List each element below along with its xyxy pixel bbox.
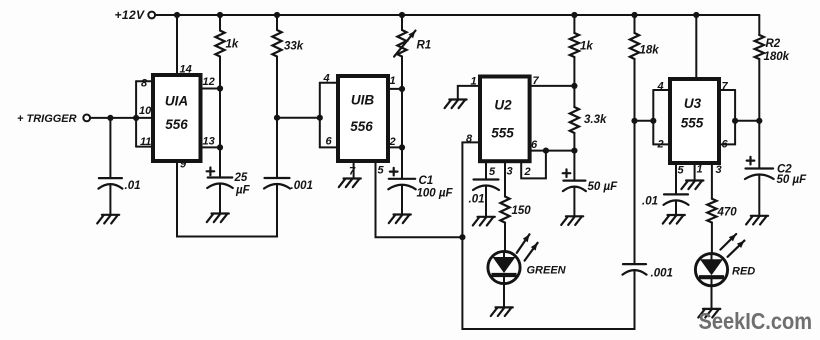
wire U3 left bracket to 18k <box>635 120 654 122</box>
node rail-R1 <box>399 12 405 18</box>
svg-text:.001: .001 <box>291 180 313 192</box>
wire U3 pins 7-6 bracket <box>734 90 736 144</box>
svg-text:7: 7 <box>349 166 356 178</box>
svg-text:UIA: UIA <box>165 94 188 109</box>
svg-text:7: 7 <box>533 75 540 87</box>
capacitor C1 100 uF <box>388 168 453 214</box>
node rail-U3 <box>693 12 699 18</box>
wire U1A pin 9 to .001 <box>177 159 277 237</box>
svg-text:13: 13 <box>203 136 215 148</box>
svg-text:50 µF: 50 µF <box>777 174 808 186</box>
node trigger-C.01 <box>107 115 113 121</box>
ground under GREEN LED <box>491 307 513 316</box>
resistor 18k <box>630 15 659 59</box>
svg-text:7: 7 <box>722 81 729 93</box>
timer U2 555 <box>480 77 530 162</box>
watermark SeekIC.com <box>699 308 813 334</box>
ground UIB pin 7 <box>339 179 361 188</box>
svg-text:11: 11 <box>140 136 151 148</box>
resistor 1k (U2) <box>570 15 594 86</box>
svg-text:555: 555 <box>491 126 514 141</box>
svg-text:1k: 1k <box>226 39 239 51</box>
node rail-1k <box>217 12 223 18</box>
resistor R2 180k <box>755 15 790 121</box>
ground U2 pin 1 <box>445 100 467 109</box>
wire UIB pin 1 stub <box>388 75 402 89</box>
wire U2 pin 2 loop <box>521 151 546 179</box>
wire UIB pin 5 to node <box>376 161 463 237</box>
svg-text:GREEN: GREEN <box>527 265 567 277</box>
capacitor C2 50 uF <box>745 121 807 215</box>
node 33k junction <box>274 115 280 121</box>
svg-text:RED: RED <box>732 266 755 278</box>
ground under 50uF <box>561 216 583 225</box>
node pin6-pin2 tie <box>543 148 549 154</box>
wire U1A pins 8-10-11 bracket <box>136 81 152 146</box>
node UIB pin1 <box>399 86 405 92</box>
svg-text:9: 9 <box>180 159 187 171</box>
op timer U1A 556 <box>153 75 201 161</box>
wire UIB pins 4-6 bracket <box>319 83 321 148</box>
wire U3 pin 2 stub <box>653 139 670 151</box>
svg-text:10: 10 <box>139 105 152 117</box>
svg-text:5: 5 <box>378 165 385 177</box>
svg-text:50 µF: 50 µF <box>588 181 619 193</box>
svg-text:18k: 18k <box>640 45 660 57</box>
node pin5/pin8 junction <box>459 234 465 240</box>
svg-text:3: 3 <box>507 166 513 178</box>
svg-text:180k: 180k <box>764 51 790 63</box>
wire U3 pin 1 to ground <box>695 163 703 180</box>
svg-text:R2: R2 <box>766 38 781 50</box>
node rail-1k-b <box>571 12 577 18</box>
svg-text:SeekIC.com: SeekIC.com <box>699 308 813 334</box>
wire U1A pin 11 stub <box>136 136 153 148</box>
variable resistor R1 <box>394 15 431 57</box>
svg-text:2: 2 <box>657 139 664 151</box>
node UIB pin2 <box>399 144 405 150</box>
svg-text:.001: .001 <box>651 268 673 280</box>
resistor 33k <box>272 15 303 57</box>
wire 18k to .001 <box>634 59 636 264</box>
wire U2 pin 6 stub <box>530 139 575 151</box>
svg-text:C1: C1 <box>419 175 434 187</box>
node rail-U1A <box>174 12 180 18</box>
svg-text:2: 2 <box>524 166 531 178</box>
wire right bracket to R2 <box>735 120 759 122</box>
wire UIB pin 2 stub <box>388 136 402 148</box>
ground U3 pin 1 <box>681 181 703 190</box>
wire U3 pins 4-2 bracket <box>652 90 654 144</box>
node 3.3k bottom <box>571 148 577 154</box>
node U3 left bracket <box>650 118 656 124</box>
svg-text:4: 4 <box>323 73 330 85</box>
wire trigger to U1A pin 10 <box>90 117 153 119</box>
svg-text:5: 5 <box>489 166 496 178</box>
svg-text:R1: R1 <box>417 40 432 52</box>
ground under .01 trigger cap <box>97 215 119 224</box>
svg-text:556: 556 <box>350 119 373 134</box>
svg-text:33k: 33k <box>284 41 304 53</box>
node 18k junction <box>631 118 637 124</box>
svg-text:5: 5 <box>678 165 685 177</box>
capacitor 25 uF <box>207 168 251 213</box>
ground under RED LED <box>698 309 720 318</box>
wire U1A pin 8 stub <box>136 78 153 90</box>
svg-text:1: 1 <box>390 75 396 87</box>
node U3 right bracket <box>732 118 738 124</box>
arrows RED LED <box>720 234 744 257</box>
ground under C1 <box>389 215 411 224</box>
node rail-18k <box>631 12 637 18</box>
svg-text:1k: 1k <box>580 41 593 53</box>
svg-text:+12V: +12V <box>115 8 146 22</box>
resistor 470 <box>707 163 737 254</box>
svg-text:U3: U3 <box>684 96 702 111</box>
wire R1 to pins 1-2 <box>401 57 403 179</box>
node rail-33k <box>274 12 280 18</box>
svg-text:4: 4 <box>657 81 664 93</box>
svg-text:.01: .01 <box>125 180 141 192</box>
svg-text:3: 3 <box>716 164 722 176</box>
svg-text:2: 2 <box>389 136 396 148</box>
capacitor .001 (U1A feedback) <box>264 178 313 192</box>
node U2 pin7 <box>571 83 577 89</box>
wire U3 pin 7 stub <box>719 81 735 93</box>
svg-text:.01: .01 <box>469 194 485 206</box>
svg-text:12: 12 <box>203 76 215 88</box>
LED RED <box>695 254 755 286</box>
ground under C2 <box>746 216 768 225</box>
resistor 1k (U1A) <box>215 15 238 57</box>
wire U3 pin 4 stub <box>653 81 670 93</box>
node pin13 <box>217 144 223 150</box>
svg-text:556: 556 <box>165 117 188 132</box>
wire +12V rail <box>155 14 759 16</box>
wire 33k to UIB bracket <box>277 117 320 119</box>
resistor 150 <box>500 161 531 251</box>
capacitor .01 (U2 pin5) <box>469 161 500 216</box>
ground under 25uF <box>207 214 229 223</box>
wire UIB pin 6 stub <box>320 136 338 148</box>
ground under U2 .01 <box>473 217 495 226</box>
wire RED LED to ground <box>711 286 713 308</box>
svg-text:6: 6 <box>722 139 729 151</box>
wire U2 pin 8 to junction <box>462 133 480 237</box>
wire U1A pin 14 Vcc <box>177 15 192 76</box>
capacitor .01 at trigger <box>98 118 140 214</box>
wire U1A pin 13 stub <box>201 136 221 148</box>
svg-text:6: 6 <box>531 139 538 151</box>
capacitor .01 (U3 pin5) <box>642 163 689 214</box>
wire UIB pin 4 stub <box>320 73 338 85</box>
node UIB bracket junction <box>317 115 323 121</box>
svg-text:8: 8 <box>141 78 148 90</box>
svg-text:100 µF: 100 µF <box>417 188 454 200</box>
wire U1A pin 12 stub <box>201 76 221 89</box>
timer U3 555 <box>670 79 719 163</box>
wire UIB pin 7 stub <box>349 161 356 178</box>
svg-text:150: 150 <box>512 205 532 217</box>
wire U3 pin 6 stub <box>719 139 735 151</box>
svg-text:.01: .01 <box>642 196 658 208</box>
svg-text:3.3k: 3.3k <box>584 114 607 126</box>
svg-text:1: 1 <box>697 164 703 176</box>
wire 1k to pin12/pin13 <box>219 57 221 178</box>
node trigger-bracket <box>133 115 139 121</box>
capacitor 50 uF (U2) <box>563 151 618 216</box>
svg-text:µF: µF <box>235 185 251 197</box>
op timer U1B 556 <box>338 76 388 161</box>
svg-text:+ TRIGGER: + TRIGGER <box>17 113 77 125</box>
ground under U3 .01 <box>663 215 685 224</box>
svg-text:25: 25 <box>234 172 248 184</box>
wire 33k to .001 <box>276 57 278 179</box>
svg-text:UIB: UIB <box>351 93 375 108</box>
resistor 3.3k <box>570 86 607 151</box>
svg-text:555: 555 <box>681 116 704 131</box>
arrows GREEN LED <box>517 234 538 260</box>
wire U3 Vcc <box>695 15 697 79</box>
power terminal +12V <box>115 8 156 22</box>
svg-text:470: 470 <box>717 207 738 219</box>
wire U2 pin 7 stub <box>530 75 575 87</box>
node R2 junction <box>756 118 762 124</box>
wire bottom run to .001 <box>462 237 634 329</box>
LED GREEN <box>488 251 567 283</box>
svg-text:6: 6 <box>326 136 333 148</box>
node pin12 <box>217 85 223 91</box>
svg-text:U2: U2 <box>494 98 512 113</box>
capacitor .001 (U3 trigger) <box>623 264 673 279</box>
input terminal + TRIGGER <box>17 113 90 125</box>
wire GREEN LED to ground <box>503 284 505 307</box>
wire U2 pin 1 to ground <box>458 76 480 99</box>
